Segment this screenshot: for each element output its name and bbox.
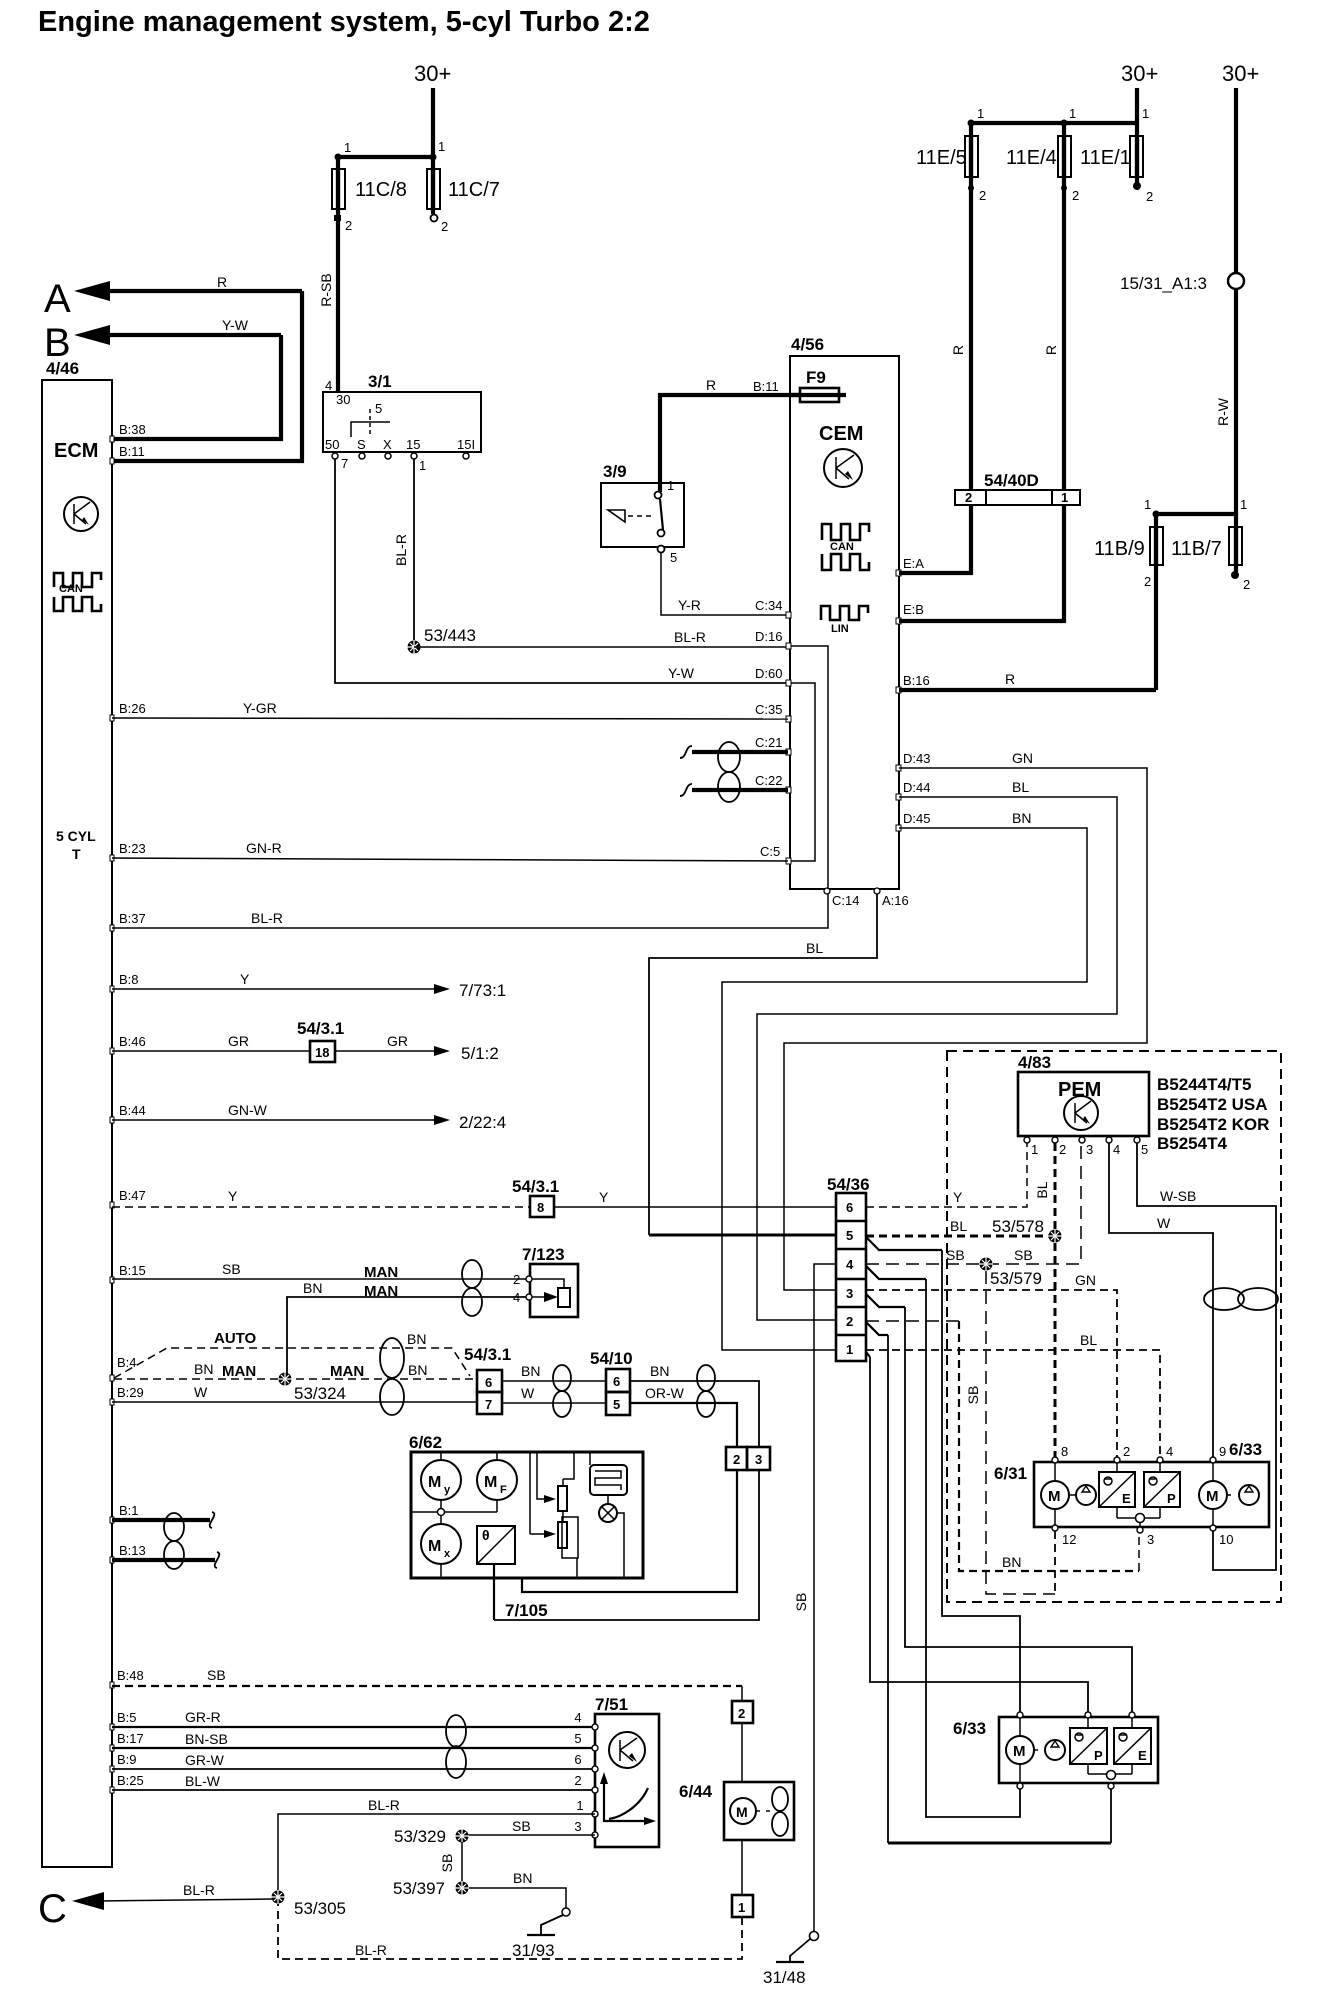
svg-text:R: R	[1043, 345, 1059, 355]
twist symbol B:1 B:13	[164, 1513, 184, 1569]
battery feed 30+ left	[414, 61, 451, 123]
wire E:A thick to 54/40D	[899, 505, 971, 573]
wire C:21 twisted	[680, 746, 788, 758]
svg-text:1: 1	[846, 1342, 853, 1357]
svg-text:S: S	[357, 437, 366, 452]
wire A loop to ECM B:11	[112, 291, 302, 461]
svg-text:2: 2	[345, 218, 352, 233]
svg-text:M: M	[736, 1804, 748, 1820]
CEM pin C:5	[760, 844, 791, 864]
svg-text:1: 1	[1069, 106, 1076, 121]
junction node in 6/62	[411, 1509, 497, 1516]
svg-text:4: 4	[513, 1290, 520, 1305]
svg-text:53/324: 53/324	[294, 1384, 346, 1403]
gauge symbol 6/33 right	[1239, 1485, 1259, 1505]
wire 3/1 pin 50 Y-W to CEM D:60	[335, 459, 788, 683]
wire bus to 11B fuses	[1144, 497, 1247, 518]
lamp symbol	[599, 1495, 624, 1578]
svg-text:BL-R: BL-R	[368, 1797, 400, 1813]
wire D:45 BN to 54/36 pin 1	[722, 810, 1087, 1350]
svg-text:LIN: LIN	[831, 623, 849, 635]
temp sensor theta box	[477, 1526, 515, 1564]
7/51 pins	[574, 1710, 598, 1730]
svg-text:B:15: B:15	[119, 1263, 146, 1278]
svg-text:2: 2	[738, 1706, 745, 1721]
svg-text:7: 7	[485, 1397, 492, 1412]
svg-text:C: C	[38, 1887, 67, 1931]
svg-text:6/62: 6/62	[409, 1433, 442, 1452]
wire Y from 54/3.1-8 to 54/36 pin 6	[554, 1189, 836, 1207]
svg-text:4: 4	[1166, 1444, 1173, 1459]
6/33 E top pin	[1129, 1712, 1135, 1718]
motor M 6/31	[1041, 1463, 1076, 1525]
svg-text:SB: SB	[1014, 1247, 1033, 1263]
svg-text:53/397: 53/397	[393, 1879, 445, 1898]
6/62 inner partition	[529, 1452, 531, 1534]
wire OR-W 54/10 to connector 2	[630, 1385, 737, 1447]
svg-text:D:60: D:60	[755, 666, 782, 681]
wire BL thick dashed 54/36-5 to junction 53/578	[866, 1235, 1049, 1238]
svg-text:54/3.1: 54/3.1	[464, 1345, 511, 1364]
wire BL 54/36-1 to 6/31 pin 4	[866, 1332, 1160, 1457]
svg-text:D:45: D:45	[903, 811, 930, 826]
svg-text:BN: BN	[408, 1362, 427, 1378]
wire 30+ bus to 11E fuses	[968, 106, 1150, 127]
svg-text:50: 50	[325, 437, 339, 452]
svg-text:B:11: B:11	[753, 379, 779, 394]
wire B:46 GR via 54/3.1 pin18 to 5/1:2	[110, 1019, 499, 1063]
junction 53/443	[407, 626, 476, 654]
svg-text:M: M	[484, 1474, 497, 1491]
CEM pin E:A	[896, 556, 924, 576]
svg-text:W-SB: W-SB	[1160, 1188, 1196, 1204]
svg-text:M: M	[428, 1474, 441, 1491]
svg-text:4: 4	[325, 378, 332, 393]
svg-text:Y: Y	[953, 1189, 963, 1205]
svg-text:SB: SB	[207, 1667, 226, 1683]
fuse F9 in CEM	[791, 368, 846, 402]
svg-text:Y-W: Y-W	[668, 665, 695, 681]
climate unit 6/62	[409, 1433, 643, 1578]
6/33 pin 10	[1210, 1525, 1233, 1547]
wire Y 54/36-6 to PEM pin 1	[866, 1143, 1027, 1207]
svg-text:GR: GR	[228, 1033, 249, 1049]
junction 53/305	[271, 1890, 346, 1918]
svg-text:30: 30	[336, 392, 350, 407]
wire A:16 BL to 54/36 pin 5	[649, 894, 967, 1235]
connector 54/10 pins 6 5	[590, 1349, 633, 1415]
svg-text:BL-W: BL-W	[185, 1773, 221, 1789]
fan motor 6/44	[679, 1782, 794, 1840]
svg-text:6: 6	[846, 1200, 853, 1215]
svg-text:2: 2	[441, 219, 448, 234]
svg-text:BL: BL	[1034, 1181, 1050, 1198]
fuse 11C/7	[427, 157, 500, 234]
svg-text:R-W: R-W	[1215, 397, 1231, 426]
level sensor E 6/33 lower	[1114, 1718, 1151, 1774]
svg-text:15: 15	[406, 437, 420, 452]
CEM K symbol	[824, 449, 862, 487]
svg-text:B:47: B:47	[119, 1188, 146, 1203]
svg-text:T: T	[72, 846, 81, 862]
svg-text:MAN: MAN	[364, 1283, 398, 1300]
svg-text:5: 5	[1141, 1142, 1148, 1157]
svg-text:7/105: 7/105	[505, 1601, 548, 1620]
svg-text:1: 1	[438, 139, 445, 154]
svg-text:11C/7: 11C/7	[448, 179, 500, 201]
connector 7/123	[513, 1245, 578, 1317]
fuse 11E/4	[1006, 123, 1079, 203]
ECM K symbol	[64, 497, 98, 531]
svg-text:B:17: B:17	[117, 1731, 144, 1746]
wire SB 54/36-4 to ground 31/48	[793, 1264, 836, 1932]
CEM pin C:14	[824, 888, 859, 908]
svg-text:M: M	[428, 1538, 441, 1555]
CEM pin C:35	[755, 702, 791, 722]
svg-text:W: W	[1157, 1215, 1171, 1231]
svg-text:A: A	[44, 277, 71, 321]
svg-text:18: 18	[315, 1045, 329, 1060]
fuel pump unit 6/33 lower box	[953, 1717, 1158, 1783]
junction 53/397	[393, 1879, 469, 1898]
svg-text:B:13: B:13	[119, 1543, 146, 1558]
wire B:29 W to 54/3.1 pin 7	[110, 1384, 477, 1405]
svg-text:R-SB: R-SB	[318, 273, 334, 306]
connector 54/40D	[955, 471, 1080, 505]
fuse 11C/8	[332, 157, 407, 233]
svg-text:2: 2	[846, 1314, 853, 1329]
svg-text:5: 5	[846, 1228, 853, 1243]
svg-text:2: 2	[1072, 188, 1079, 203]
svg-text:Y-W: Y-W	[222, 317, 249, 333]
CEM CAN symbol	[822, 524, 869, 570]
CEM pin C:34	[755, 598, 791, 618]
wire C:22 twisted	[680, 784, 788, 796]
svg-text:4/56: 4/56	[791, 335, 824, 354]
ignition switch 3/1	[323, 372, 481, 473]
svg-text:2: 2	[1123, 1444, 1130, 1459]
svg-text:B:1: B:1	[119, 1503, 139, 1518]
svg-text:GN: GN	[1075, 1272, 1096, 1288]
wire BN 54/36-2 to 6/31 pin 3	[866, 1321, 1139, 1571]
svg-text:CAN: CAN	[830, 541, 854, 553]
svg-text:53/329: 53/329	[394, 1827, 446, 1846]
svg-text:C:22: C:22	[755, 773, 782, 788]
svg-text:1: 1	[738, 1900, 745, 1915]
ECM box 4/46	[42, 359, 112, 1867]
CEM pin D:60	[755, 666, 791, 686]
svg-text:B5254T2 USA: B5254T2 USA	[1157, 1095, 1268, 1114]
CEM internal link D:60 to C:5	[791, 683, 815, 861]
wire BN 54/3.1 to 54/10	[502, 1363, 606, 1381]
svg-text:3: 3	[846, 1286, 853, 1301]
CEM box 4/56	[790, 335, 899, 889]
title	[38, 6, 650, 38]
svg-text:BL: BL	[1012, 779, 1029, 795]
motor Mx	[421, 1516, 461, 1578]
wire 3/1 pin 15 BL-R down	[393, 459, 414, 641]
svg-text:MAN: MAN	[330, 1363, 364, 1380]
svg-text:M: M	[1206, 1488, 1219, 1505]
wire B:37 BL-R to CEM C:14	[110, 894, 828, 931]
svg-text:2: 2	[1059, 1142, 1066, 1157]
svg-text:1: 1	[667, 478, 674, 493]
svg-text:5: 5	[574, 1731, 581, 1746]
gauge symbol 6/33 lower	[1045, 1740, 1065, 1760]
svg-text:7/51: 7/51	[595, 1695, 628, 1714]
fuse 11E/5	[916, 123, 986, 203]
CEM LIN symbol	[821, 606, 868, 635]
svg-text:B:16: B:16	[903, 673, 930, 688]
svg-text:Y-GR: Y-GR	[243, 700, 277, 716]
twist symbol before 7/123	[462, 1260, 482, 1316]
svg-text:GR: GR	[387, 1033, 408, 1049]
ECM CAN symbol	[54, 573, 101, 611]
svg-text:B:25: B:25	[117, 1773, 144, 1788]
svg-text:5/1:2: 5/1:2	[461, 1044, 499, 1063]
svg-text:BN: BN	[521, 1363, 540, 1379]
svg-text:F: F	[500, 1484, 507, 1496]
svg-text:B:5: B:5	[117, 1710, 137, 1725]
twist symbol before 54/10	[553, 1365, 571, 1417]
svg-text:5: 5	[613, 1397, 620, 1412]
blower resistor 1	[537, 1452, 574, 1511]
wire BN 54/10 to connector 3	[630, 1363, 759, 1447]
6/31 pin 12	[1052, 1525, 1076, 1594]
svg-text:BN: BN	[407, 1331, 426, 1347]
CEM pin D:16	[755, 629, 791, 649]
ECM pin B:11	[110, 444, 145, 464]
svg-text:2: 2	[1144, 574, 1151, 589]
svg-text:2: 2	[1146, 189, 1153, 204]
wire D:44 BL to 54/36 pin 2	[757, 779, 1117, 1320]
svg-text:54/40D: 54/40D	[984, 471, 1039, 490]
svg-text:E: E	[1122, 1491, 1131, 1506]
svg-text:CAN: CAN	[59, 583, 83, 595]
svg-text:B:8: B:8	[119, 972, 139, 987]
junction 53/324	[278, 1372, 346, 1403]
wire 54/36-3 branch to 6/33 E top	[866, 1294, 1132, 1715]
connector arrow A	[44, 274, 302, 321]
svg-text:5: 5	[375, 401, 382, 416]
svg-text:11E/5: 11E/5	[916, 147, 967, 169]
svg-text:6/33: 6/33	[953, 1719, 986, 1738]
svg-text:11E/1: 11E/1	[1080, 147, 1131, 169]
svg-text:D:43: D:43	[903, 751, 930, 766]
svg-text:3/1: 3/1	[368, 372, 392, 391]
terminal 15/31_A1:3	[1120, 273, 1244, 293]
junction 53/579	[979, 1257, 1042, 1288]
svg-text:Y: Y	[228, 1188, 238, 1204]
svg-text:10: 10	[1219, 1532, 1233, 1547]
svg-text:4: 4	[1113, 1142, 1120, 1157]
svg-text:15/31_A1:3: 15/31_A1:3	[1120, 274, 1207, 293]
svg-text:BL: BL	[1080, 1332, 1097, 1348]
ground switch 31/48	[763, 1932, 819, 1988]
svg-text:OR-W: OR-W	[645, 1385, 685, 1401]
svg-text:11B/7: 11B/7	[1171, 538, 1222, 560]
wire R 11B/9 to CEM B:16	[899, 671, 1156, 690]
svg-text:BN: BN	[650, 1363, 669, 1379]
svg-text:E:B: E:B	[903, 602, 924, 617]
connector 54/36	[827, 1175, 870, 1361]
svg-text:C:34: C:34	[755, 598, 782, 613]
svg-text:6/31: 6/31	[994, 1464, 1027, 1483]
svg-text:GN: GN	[1012, 750, 1033, 766]
svg-text:A:16: A:16	[882, 893, 909, 908]
svg-text:Y: Y	[240, 971, 250, 987]
wire BL-R 7/51 pin 1 to 53/305	[278, 1797, 595, 1891]
svg-text:SB: SB	[222, 1261, 241, 1277]
svg-text:15I: 15I	[457, 437, 475, 452]
svg-text:B:11: B:11	[119, 444, 145, 459]
wire B:44 GN-W to 2/22:4	[110, 1102, 506, 1132]
6/33 motor top pin	[1017, 1712, 1023, 1718]
battery feed 30+ far right	[1222, 61, 1259, 273]
instrument module 7/51	[595, 1695, 659, 1847]
wire D:43 GN to 54/36 pin 3	[784, 750, 1147, 1290]
wire 54/36-5 branch to 6/33 motor top	[866, 1237, 1020, 1715]
svg-text:E: E	[1138, 1748, 1147, 1763]
svg-text:1: 1	[344, 140, 351, 155]
wire SB 53/579 down to 6/31 pin 12	[965, 1271, 1055, 1594]
svg-text:BL-R: BL-R	[393, 534, 409, 566]
svg-text:B:38: B:38	[119, 422, 146, 437]
junction 53/329	[394, 1827, 469, 1846]
wire B:15 SB to 7/123 pin 2	[110, 1261, 526, 1283]
svg-text:B:37: B:37	[119, 911, 146, 926]
wire B:9 GR-W to 7/51 pin 6	[110, 1752, 595, 1772]
svg-text:R: R	[706, 377, 716, 393]
svg-text:30+: 30+	[1222, 61, 1259, 86]
svg-text:BN: BN	[1002, 1554, 1021, 1570]
svg-text:2: 2	[979, 188, 986, 203]
svg-text:C:21: C:21	[755, 735, 782, 750]
svg-text:BN-SB: BN-SB	[185, 1731, 228, 1747]
svg-text:BN: BN	[513, 1870, 532, 1886]
svg-text:B:4: B:4	[117, 1355, 137, 1370]
svg-text:1: 1	[1142, 106, 1149, 121]
svg-text:BN: BN	[1012, 810, 1031, 826]
svg-text:D:16: D:16	[755, 629, 782, 644]
wire W-SB PEM pin 5 to 6/33 pin 10	[1137, 1143, 1276, 1570]
svg-text:54/3.1: 54/3.1	[512, 1177, 559, 1196]
6/31 pin 2	[1114, 1444, 1130, 1463]
svg-text:D:44: D:44	[903, 780, 930, 795]
connector 54/3.1 pins 6 7	[464, 1345, 511, 1414]
svg-text:11E/4: 11E/4	[1006, 147, 1057, 169]
svg-text:SB: SB	[439, 1854, 455, 1873]
svg-text:B: B	[44, 321, 71, 365]
CEM pin C:22	[755, 773, 791, 793]
wire BL-R dashed from 6/44 to 53/305	[278, 1903, 742, 1959]
CEM pin D:44	[896, 780, 930, 800]
6/33 motor bottom pin	[1017, 1783, 1023, 1789]
CEM pin D:45	[896, 811, 930, 831]
svg-text:P: P	[1167, 1491, 1176, 1506]
svg-text:3: 3	[1086, 1142, 1093, 1157]
wire BL-R 53/443 to CEM D:16	[414, 629, 788, 647]
svg-text:SB: SB	[965, 1386, 981, 1405]
svg-text:53/443: 53/443	[424, 626, 476, 645]
ECM pin B:38	[110, 422, 146, 442]
svg-text:Y-R: Y-R	[678, 597, 701, 613]
svg-text:MAN: MAN	[222, 1363, 256, 1380]
wire BL thick dashed 53/578 to PEM pin 2	[1034, 1143, 1055, 1229]
svg-text:C:35: C:35	[755, 702, 782, 717]
svg-text:AUTO: AUTO	[214, 1330, 257, 1347]
pump unit 6/31 6/33 box	[994, 1440, 1269, 1527]
wire connector2 down to 6/62	[522, 1470, 737, 1592]
svg-text:SB: SB	[946, 1247, 965, 1263]
svg-text:E:A: E:A	[903, 556, 924, 571]
motor MF	[477, 1452, 517, 1512]
svg-text:53/578: 53/578	[992, 1217, 1044, 1236]
svg-text:F9: F9	[806, 368, 826, 387]
wire R-W down from 15/31	[1215, 289, 1236, 514]
wire SB 53/329 to 53/397	[439, 1842, 462, 1882]
svg-text:7: 7	[341, 456, 348, 471]
svg-text:54/3.1: 54/3.1	[297, 1019, 344, 1038]
wire GN 54/36-3 to 6/31 pin 2	[866, 1272, 1117, 1457]
wire BN to 7/123 pin 4	[287, 1280, 526, 1374]
svg-text:Y: Y	[599, 1189, 609, 1205]
svg-text:9: 9	[1219, 1444, 1226, 1459]
motor M 6/33 right	[1199, 1463, 1234, 1525]
wire Y-R 3/9 pin 5 to CEM C:34	[661, 552, 788, 615]
heater element	[590, 1452, 627, 1495]
svg-text:6/33: 6/33	[1229, 1440, 1262, 1459]
svg-text:R: R	[217, 274, 227, 290]
svg-text:2: 2	[965, 490, 972, 505]
twist symbol W W-SB pair	[1204, 1288, 1278, 1310]
svg-text:BL: BL	[950, 1218, 967, 1234]
svg-text:BN: BN	[303, 1280, 322, 1296]
svg-text:3: 3	[574, 1819, 581, 1834]
wire R from 3/9 pin 1 to CEM F9	[660, 377, 800, 492]
battery feed 30+ right group	[1121, 61, 1158, 123]
wire BN 53/397 to ground 31/93	[469, 1870, 566, 1908]
switch 3/9	[601, 462, 684, 565]
wire 54/36-1 branch to 6/33 P top	[866, 1352, 1088, 1715]
svg-text:B5254T2 KOR: B5254T2 KOR	[1157, 1115, 1269, 1134]
svg-text:2/22:4: 2/22:4	[459, 1113, 506, 1132]
svg-text:GR-R: GR-R	[185, 1709, 221, 1725]
CEM pin B:16	[896, 673, 930, 693]
svg-text:BL: BL	[806, 940, 823, 956]
wire B:26 Y-GR to CEM C:35	[110, 700, 788, 721]
wire B:1 twisted pair	[110, 1503, 214, 1528]
svg-text:53/579: 53/579	[990, 1269, 1042, 1288]
svg-text:11B/9: 11B/9	[1094, 538, 1145, 560]
svg-text:B:23: B:23	[119, 841, 146, 856]
svg-text:BL-R: BL-R	[251, 910, 283, 926]
6/33 P top pin	[1085, 1712, 1091, 1718]
svg-text:31/93: 31/93	[512, 1941, 555, 1960]
wire R 11E/4 to 54/40D pin 1	[1043, 190, 1064, 490]
CEM internal link D:16 to C:14	[791, 646, 828, 889]
svg-text:B5244T4/T5: B5244T4/T5	[1157, 1075, 1252, 1094]
svg-text:B:26: B:26	[119, 701, 146, 716]
ECM 5 CYL T label	[56, 828, 96, 862]
svg-text:1: 1	[977, 106, 984, 121]
svg-text:BL-R: BL-R	[674, 629, 706, 645]
svg-text:PEM: PEM	[1058, 1079, 1101, 1101]
svg-text:8: 8	[1061, 1444, 1068, 1459]
svg-text:4/83: 4/83	[1018, 1053, 1051, 1072]
wire B:17 BN-SB to 7/51 pin 5	[110, 1731, 595, 1751]
svg-text:SB: SB	[512, 1818, 531, 1834]
